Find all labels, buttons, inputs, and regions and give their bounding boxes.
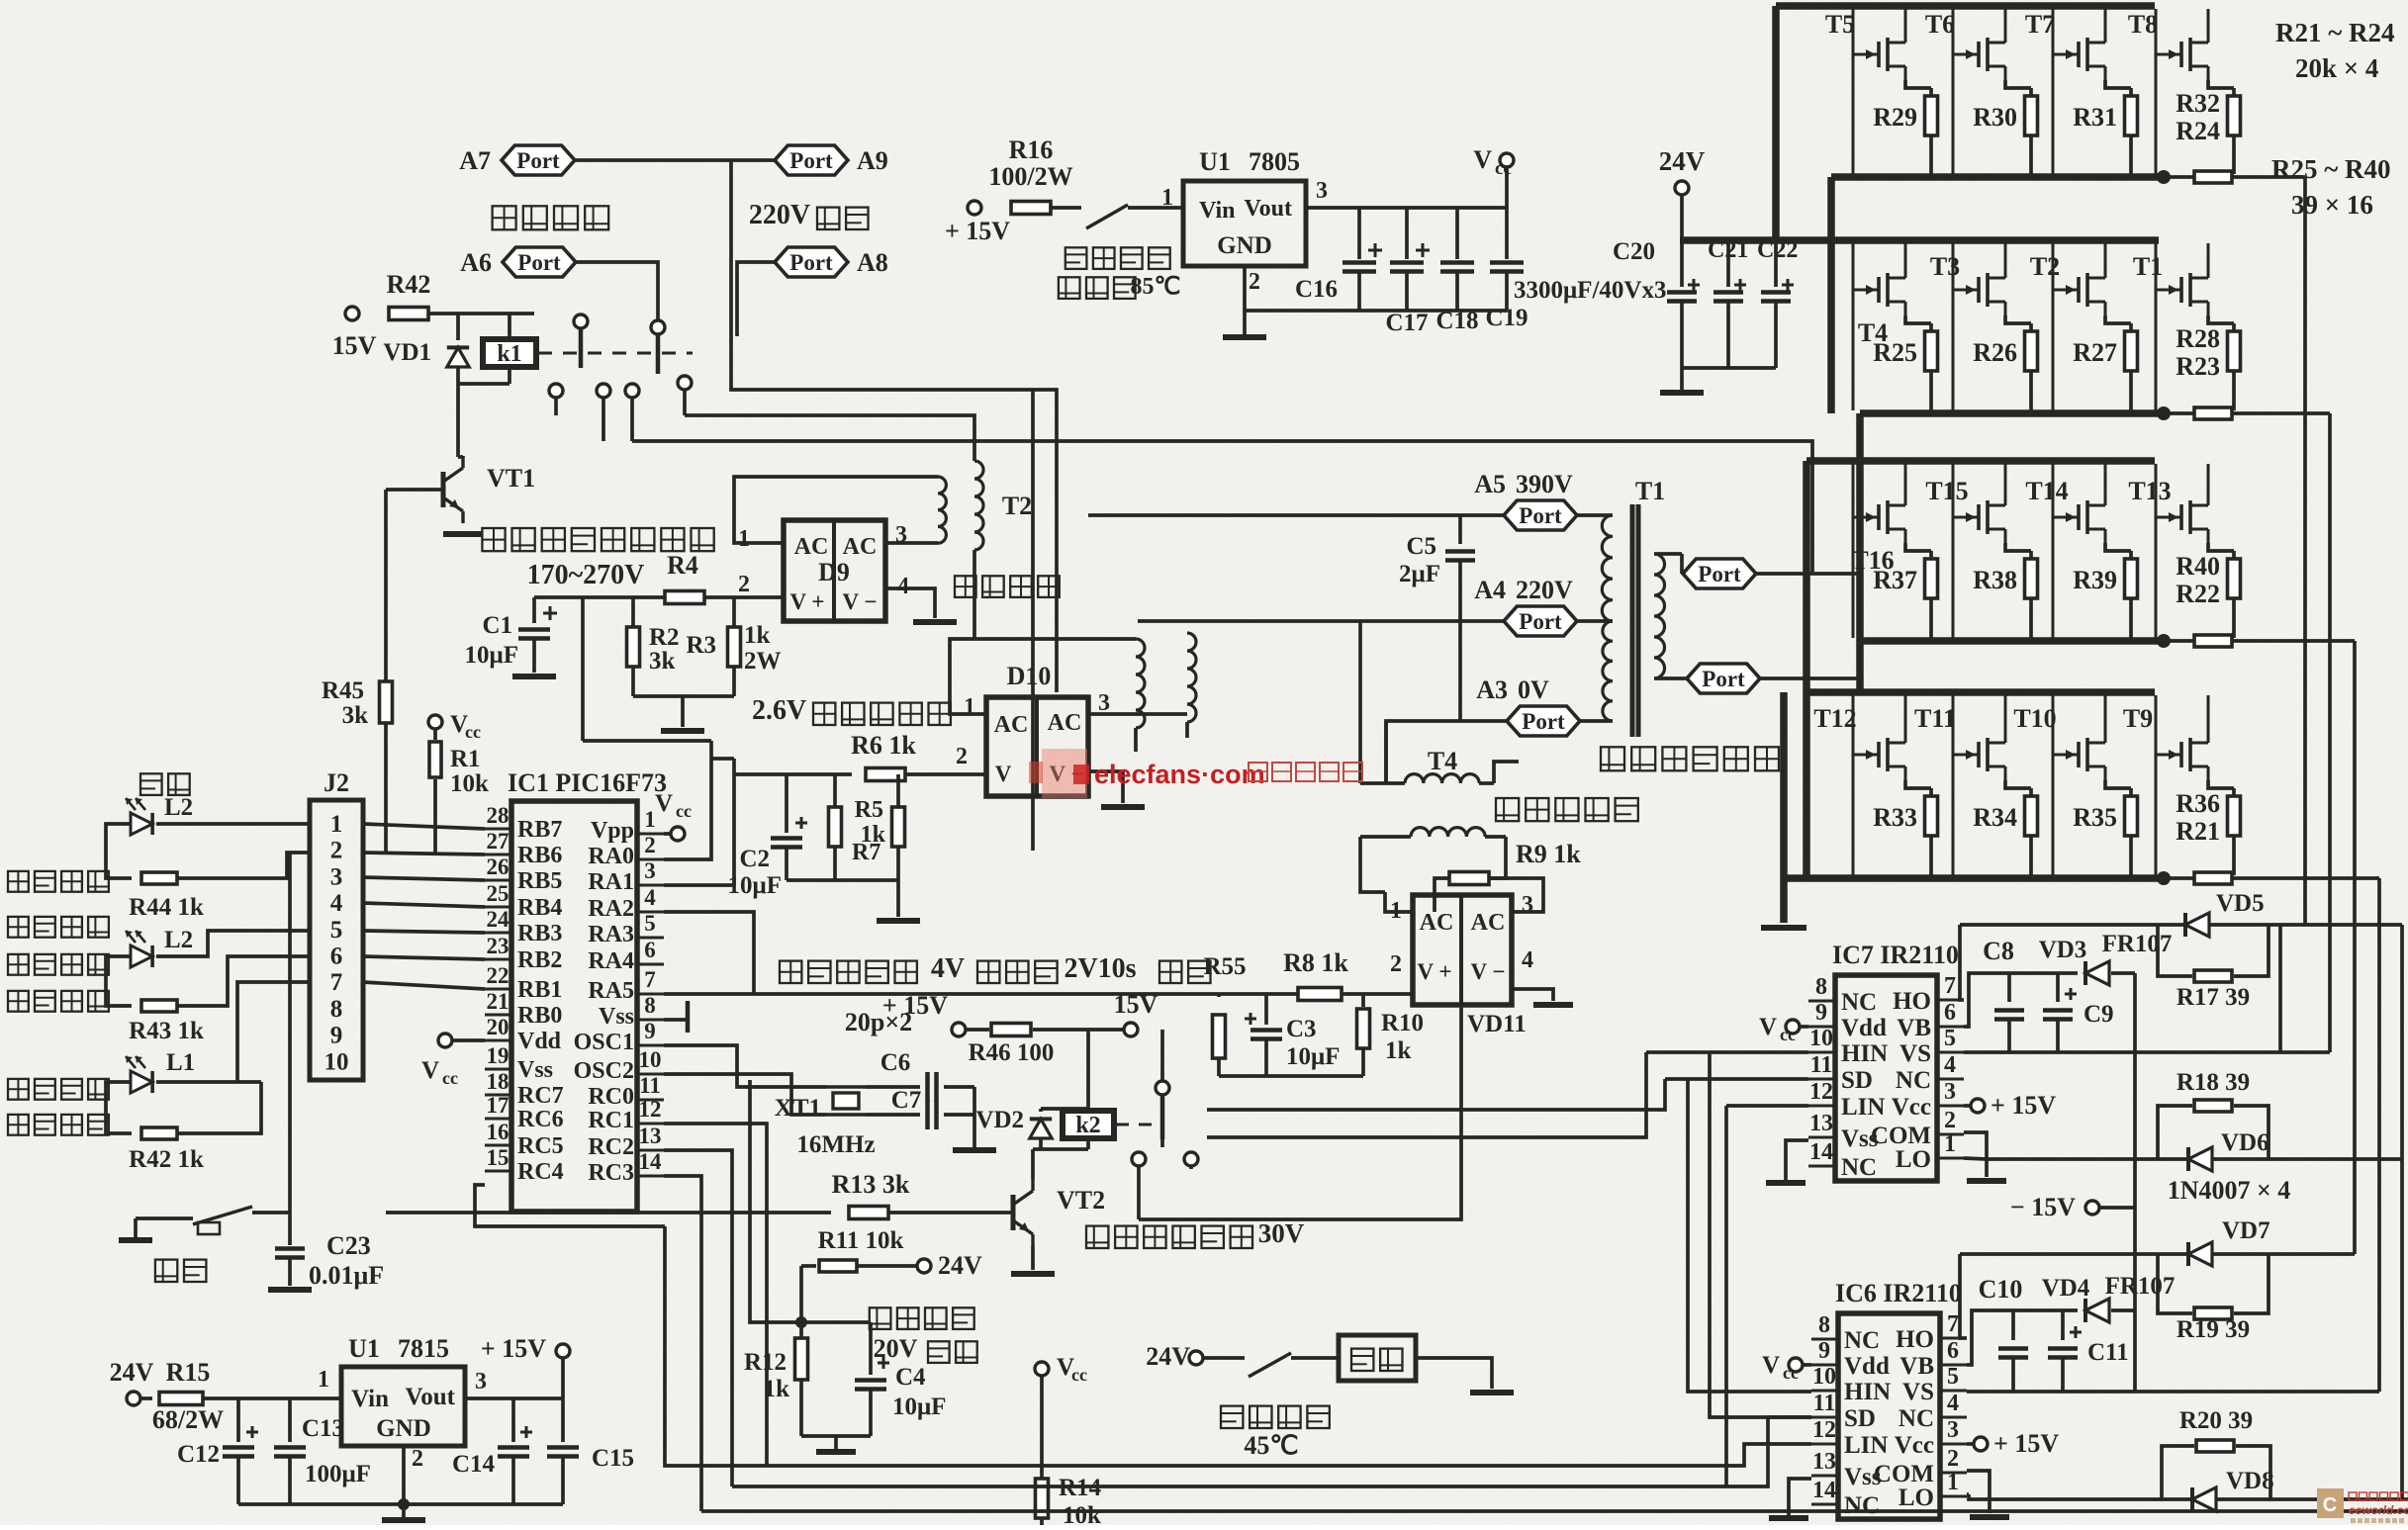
- svg-text:R36: R36: [2176, 789, 2220, 818]
- resistor R8: [1283, 948, 1348, 1001]
- svg-text:OSC1: OSC1: [574, 1030, 634, 1055]
- diode VD2: [975, 1107, 1052, 1149]
- VT1 collector wire: [458, 456, 463, 457]
- wire R42 right: [428, 312, 534, 315]
- svg-text:C8: C8: [1983, 937, 2014, 965]
- wire T4 left loop: [1358, 621, 1362, 783]
- LED L2 a: [126, 794, 193, 835]
- svg-text:2: 2: [1390, 951, 1402, 977]
- svg-text:A8: A8: [857, 248, 888, 277]
- svg-text:24V: 24V: [938, 1251, 982, 1280]
- svg-text:NC: NC: [1896, 1067, 1931, 1094]
- transformer T4 coil2: [1360, 828, 1506, 837]
- resistor R17: [2158, 925, 2269, 1011]
- svg-text:R55: R55: [1203, 953, 1246, 980]
- svg-text:R13 3k: R13 3k: [832, 1170, 910, 1199]
- IC6 Vcc terminal: [1762, 1352, 1811, 1383]
- svg-text:COM: COM: [1874, 1461, 1934, 1487]
- capacitor C21: [1708, 237, 1748, 368]
- svg-text:9: 9: [644, 1019, 656, 1043]
- svg-text:7: 7: [1944, 973, 1956, 999]
- wire right bundle v4: [2377, 878, 2381, 1392]
- label 过载保护点: [780, 953, 1211, 984]
- svg-text:18: 18: [487, 1069, 509, 1094]
- red overlay near D10: [1029, 749, 1087, 798]
- label 绿色充满: [8, 991, 109, 1012]
- svg-text:2: 2: [412, 1446, 423, 1472]
- thick bus row4 source: [1784, 874, 2163, 882]
- VD11 pin1 wire: [1385, 892, 1413, 912]
- ground matrix: [1761, 925, 1806, 931]
- capacitor C20: [1613, 238, 1700, 368]
- svg-text:C16: C16: [1295, 276, 1338, 303]
- svg-text:J2: J2: [324, 768, 349, 797]
- label 1N4007x4: [2168, 1176, 2291, 1205]
- svg-text:12: 12: [639, 1097, 662, 1122]
- svg-text:VD7: VD7: [2222, 1217, 2270, 1244]
- svg-text:C10: C10: [1979, 1275, 2023, 1304]
- svg-text:Port: Port: [1698, 562, 1741, 586]
- svg-text:SD: SD: [1844, 1405, 1876, 1432]
- MOSFET T8: [2128, 9, 2208, 174]
- svg-text:3: 3: [1316, 178, 1328, 204]
- IC U1 7815: [318, 1334, 487, 1472]
- IC VD11 bridge: [1390, 892, 1533, 1037]
- thick bus row1 top: [1776, 2, 2155, 10]
- resistor R33: [1873, 780, 1937, 875]
- resistor R42: [387, 270, 431, 320]
- svg-text:9: 9: [330, 1023, 343, 1049]
- svg-text:Vin: Vin: [1199, 198, 1235, 224]
- IC IC1 PIC16F73: [485, 768, 667, 1212]
- wire R43 to pin6: [177, 956, 310, 1006]
- svg-text:VD5: VD5: [2216, 890, 2265, 917]
- transformer T2 right winding: [974, 461, 983, 550]
- svg-text:100μF: 100μF: [305, 1461, 371, 1487]
- svg-text:RB4: RB4: [517, 895, 562, 921]
- OSC2 pin10 wire: [664, 1074, 826, 1115]
- C10 VD4 rail: [2013, 1308, 2135, 1312]
- wire LED3: [156, 1080, 261, 1084]
- svg-text:R43 1k: R43 1k: [129, 1018, 204, 1044]
- svg-text:R20 39: R20 39: [2179, 1407, 2253, 1434]
- svg-text:AC: AC: [1420, 910, 1454, 936]
- port T1 sec upper: [1682, 554, 1860, 588]
- svg-text:5: 5: [644, 911, 656, 936]
- IC IC7 IR2110: [1808, 941, 1964, 1181]
- svg-text:7815: 7815: [398, 1334, 449, 1363]
- svg-text:cc: cc: [676, 801, 692, 821]
- svg-text:0.01μF: 0.01μF: [309, 1261, 384, 1290]
- T1 secondary: [1654, 554, 1682, 678]
- svg-text:V: V: [421, 1057, 439, 1084]
- svg-text:cc: cc: [1495, 158, 1512, 179]
- k2 contact arm: [1156, 1081, 1169, 1147]
- svg-text:26: 26: [487, 855, 509, 879]
- svg-text:10μF: 10μF: [465, 642, 518, 669]
- svg-text:19: 19: [487, 1043, 509, 1068]
- svg-text:R38: R38: [1973, 566, 2017, 594]
- terminal Vcc R14: [1035, 1354, 1087, 1385]
- svg-text:20V: 20V: [874, 1334, 918, 1363]
- watermark elecfans logo: [1073, 760, 1265, 789]
- svg-text:21: 21: [487, 989, 509, 1014]
- svg-text:10: 10: [1812, 1364, 1836, 1390]
- MOSFET T16: [1851, 464, 1905, 638]
- wire R13 row: [386, 1211, 831, 1215]
- svg-text:LIN: LIN: [1844, 1432, 1888, 1459]
- svg-text:+ 15V: + 15V: [481, 1334, 546, 1363]
- svg-text:11: 11: [1813, 1391, 1836, 1416]
- svg-text:3: 3: [1522, 892, 1533, 918]
- R6 rail: [711, 759, 852, 885]
- svg-text:1N4007 × 4: 1N4007 × 4: [2168, 1176, 2291, 1205]
- svg-text:k1: k1: [497, 341, 521, 367]
- svg-text:NC: NC: [1844, 1492, 1880, 1519]
- svg-text:C: C: [2323, 1494, 2337, 1516]
- IC IC6 IR2110: [1811, 1279, 1967, 1519]
- svg-text:Port: Port: [1702, 667, 1745, 691]
- svg-text:22: 22: [487, 963, 509, 988]
- IC7 COM gnd: [1964, 1132, 2006, 1181]
- svg-text:Vin: Vin: [351, 1386, 389, 1412]
- svg-text:D9: D9: [818, 558, 850, 586]
- wire A3 left: [1386, 721, 1508, 783]
- svg-text:C6: C6: [880, 1049, 911, 1076]
- resistor R40: [2176, 543, 2240, 638]
- thick bus vert x1826: [1803, 461, 1810, 878]
- port A6: [460, 247, 576, 277]
- svg-text:390V: 390V: [1516, 470, 1573, 498]
- wire right bundle v3: [2353, 641, 2357, 1254]
- svg-text:3k: 3k: [342, 702, 369, 729]
- 7815 bottom rail: [238, 1504, 563, 1520]
- svg-text:RC7: RC7: [517, 1083, 564, 1109]
- wire right bundle v2: [2328, 413, 2332, 1052]
- capacitor C11: [2048, 1310, 2129, 1392]
- svg-text:4: 4: [330, 890, 343, 917]
- svg-text:eeworld.com.cn: eeworld.com.cn: [2349, 1503, 2408, 1517]
- svg-text:8: 8: [330, 996, 343, 1023]
- wire harness h3: [1726, 1104, 1808, 1108]
- svg-text:T14: T14: [2025, 477, 2068, 505]
- terminal Vcc R1: [428, 711, 481, 742]
- svg-text:cc: cc: [1783, 1363, 1799, 1383]
- svg-text:V: V: [1759, 1014, 1777, 1040]
- resistor R27: [2073, 315, 2137, 410]
- VD11 pin3 loop R9: [1489, 878, 1543, 912]
- wire bus y420: [685, 415, 974, 461]
- svg-text:10: 10: [1809, 1026, 1833, 1051]
- resistor R29: [1873, 80, 1937, 174]
- relay contact lower 3: [625, 384, 639, 441]
- capacitor C2: [728, 774, 807, 899]
- svg-text:FR107: FR107: [2105, 1273, 2176, 1300]
- thick bus vert x1851: [1827, 177, 1835, 413]
- svg-text:HO: HO: [1896, 1326, 1934, 1353]
- svg-text:T7: T7: [2025, 10, 2055, 39]
- wire bus y446: [632, 441, 1812, 574]
- svg-text:Vcc: Vcc: [1892, 1094, 1931, 1121]
- svg-text:C3: C3: [1286, 1016, 1317, 1042]
- svg-text:4V: 4V: [931, 953, 965, 984]
- svg-text:R32: R32: [2176, 89, 2220, 118]
- capacitor C23: [268, 1231, 384, 1290]
- diode VD3: [2039, 931, 2173, 985]
- svg-text:2: 2: [1249, 269, 1260, 295]
- resistor R15: [140, 1358, 341, 1434]
- resistor R45: [322, 677, 393, 853]
- label R25-R40: [2271, 154, 2391, 220]
- IC7 LO wire: [1964, 1158, 1987, 1159]
- wire A5 rail: [1088, 513, 1505, 517]
- svg-text:8: 8: [644, 993, 656, 1018]
- wire VD3 to vert: [2133, 973, 2137, 1392]
- IC7 HO wire: [1960, 925, 1964, 1000]
- svg-text:9: 9: [1815, 1000, 1827, 1026]
- wire bus y394: [731, 386, 1057, 692]
- terminal 24V fan: [1146, 1342, 1203, 1371]
- terminal Vdd pin20: [421, 1034, 485, 1088]
- svg-text:1: 1: [1947, 1470, 1959, 1495]
- capacitor C10: [1979, 1275, 2028, 1392]
- junction dot row4: [2157, 871, 2171, 885]
- wire J2 pin rows to IC: [363, 824, 485, 989]
- wire R46 junction down: [1086, 1030, 1090, 1109]
- wire R11 junction left: [750, 1080, 801, 1322]
- svg-text:3: 3: [330, 863, 343, 890]
- svg-text:4: 4: [1947, 1391, 1959, 1416]
- IC7 VS rail: [1964, 1050, 2330, 1054]
- svg-text:C12: C12: [177, 1441, 220, 1468]
- svg-text:A5: A5: [1474, 470, 1506, 498]
- wire R44 to pin2: [177, 853, 310, 878]
- thick bus row1 source: [1831, 173, 2163, 181]
- svg-text:R25: R25: [1873, 338, 1917, 367]
- svg-text:T1: T1: [1635, 477, 1665, 505]
- svg-text:U1: U1: [348, 1334, 380, 1363]
- svg-text:1: 1: [330, 811, 343, 838]
- resistor R12: [744, 1322, 808, 1436]
- svg-text:10k: 10k: [1063, 1502, 1101, 1525]
- svg-text:k2: k2: [1075, 1113, 1100, 1138]
- svg-text:10μF: 10μF: [1286, 1043, 1340, 1070]
- label 170~270V: [527, 560, 645, 590]
- svg-text:GND: GND: [1217, 232, 1272, 259]
- svg-text:IC1 PIC16F73: IC1 PIC16F73: [508, 768, 667, 797]
- svg-text:RA2: RA2: [588, 896, 634, 922]
- capacitor C22: [1757, 237, 1798, 368]
- svg-text:Vout: Vout: [1245, 196, 1292, 222]
- label 市电过欠压转逆变: [482, 528, 713, 551]
- svg-text:4: 4: [897, 574, 909, 599]
- resistor row1 source 39: [2163, 171, 2305, 183]
- svg-text:C14: C14: [452, 1451, 496, 1478]
- port A9: [775, 145, 888, 175]
- MOSFET T11: [1914, 695, 2005, 875]
- svg-text:8: 8: [1818, 1312, 1830, 1338]
- svg-text:220V: 220V: [749, 200, 810, 230]
- svg-text:15: 15: [487, 1145, 509, 1170]
- diode VD4: [2042, 1273, 2176, 1322]
- port A8: [775, 247, 888, 277]
- resistor R26: [1973, 315, 2037, 410]
- svg-text:220V: 220V: [1516, 576, 1573, 604]
- svg-text:2: 2: [1947, 1446, 1959, 1472]
- resistor row2 source 39: [2163, 407, 2330, 419]
- resistor R9: [1435, 840, 1581, 912]
- capacitor C8: [1983, 937, 2024, 1052]
- T1 primary upper: [1576, 515, 1613, 621]
- fan switch: [1203, 1353, 1339, 1377]
- resistor R11: [801, 1227, 917, 1272]
- svg-text:8: 8: [1815, 974, 1827, 1000]
- svg-text:HIN: HIN: [1844, 1379, 1891, 1405]
- svg-text:RC2: RC2: [588, 1134, 634, 1160]
- svg-text:RA1: RA1: [588, 869, 634, 895]
- svg-text:R8 1k: R8 1k: [1283, 948, 1348, 977]
- VT2 collector up: [1031, 1149, 1035, 1179]
- svg-text:2: 2: [644, 833, 656, 857]
- svg-text:A9: A9: [857, 146, 888, 175]
- VD11 pin4 gnd: [1512, 989, 1573, 1005]
- IC D10 bridge: [956, 662, 1110, 796]
- port A4 220V: [1474, 576, 1577, 636]
- svg-text:2: 2: [738, 572, 750, 597]
- VT1 emitter ground: [443, 531, 483, 537]
- svg-text:VT1: VT1: [487, 464, 535, 493]
- svg-text:C1: C1: [482, 612, 512, 639]
- svg-text:T9: T9: [2123, 704, 2153, 733]
- label 主变压器外接: [1601, 747, 1779, 770]
- RC2 pin13 wire: [664, 1150, 732, 1486]
- thick bus 24V rail: [1680, 236, 2159, 244]
- port T1 sec lower: [1682, 664, 1860, 693]
- svg-text:3: 3: [1098, 690, 1110, 716]
- k2 contact lower a: [1132, 1152, 1146, 1219]
- label 灯板: [140, 773, 190, 795]
- thermal switch: [1051, 205, 1183, 228]
- MOSFET T5: [1825, 9, 1905, 174]
- svg-text:T1: T1: [2133, 252, 2163, 281]
- bus bottom 1: [665, 1226, 1811, 1466]
- C2 R7 R5 bottom rail: [787, 880, 920, 921]
- watermark eeworld corner: [2317, 1488, 2408, 1523]
- label 红色充电: [8, 954, 109, 975]
- RA0 pin2 wire: [664, 741, 711, 859]
- svg-text:7: 7: [1947, 1311, 1959, 1337]
- svg-text:L2: L2: [164, 927, 193, 953]
- diode VD6: [1987, 1129, 2402, 1171]
- MOSFET T4: [1853, 243, 1905, 410]
- resistor R14: [1036, 1376, 1102, 1529]
- svg-text:C2: C2: [739, 846, 770, 872]
- svg-text:23: 23: [487, 934, 509, 958]
- resistor R30: [1973, 80, 2037, 174]
- svg-text:A4: A4: [1474, 576, 1506, 604]
- thick bus row3 source: [1860, 637, 2163, 645]
- svg-text:15V: 15V: [332, 331, 377, 360]
- svg-text:A6: A6: [460, 248, 492, 277]
- MOSFET T7: [2025, 9, 2105, 174]
- svg-text:RA3: RA3: [588, 922, 634, 947]
- wire harness lin7: [1207, 1052, 1646, 1137]
- relay coil k2: [1063, 1109, 1114, 1149]
- svg-text:13: 13: [639, 1124, 662, 1148]
- svg-text:R18 39: R18 39: [2176, 1069, 2250, 1096]
- T1 primary bottom wire: [1579, 719, 1613, 723]
- VD11 pin2 wire: [1411, 992, 1415, 996]
- resistor R43: [129, 1000, 204, 1044]
- svg-text:14: 14: [1809, 1139, 1833, 1165]
- capacitor C7: [866, 1087, 996, 1150]
- OSC1 pin9 wire: [664, 1045, 826, 1087]
- svg-text:VT2: VT2: [1057, 1186, 1105, 1215]
- svg-text:2: 2: [1944, 1108, 1956, 1133]
- svg-text:24V: 24V: [1146, 1342, 1190, 1371]
- IC6 +15V pin3: [1967, 1429, 2059, 1458]
- thick bus left vert1: [1772, 6, 1780, 240]
- wire VD1-k1 bottom: [458, 382, 509, 386]
- connector J2: [310, 768, 363, 1080]
- MOSFET T10: [2013, 695, 2105, 875]
- svg-text:R9 1k: R9 1k: [1516, 840, 1581, 868]
- label 热保护温控开关: [1059, 247, 1181, 300]
- svg-text:AC: AC: [794, 534, 829, 560]
- wire harness v2: [1688, 1079, 1811, 1392]
- dashed relay link: [538, 352, 693, 355]
- svg-text:T6: T6: [1925, 10, 1955, 39]
- wire LED1: [156, 822, 310, 826]
- resistor R5: [855, 774, 905, 880]
- svg-text:12: 12: [1812, 1417, 1836, 1443]
- svg-text:R16: R16: [1009, 135, 1054, 164]
- svg-text:T2: T2: [1002, 492, 1032, 520]
- svg-text:C5: C5: [1406, 533, 1436, 560]
- svg-text:cc: cc: [465, 722, 481, 742]
- svg-text:16MHz: 16MHz: [796, 1131, 875, 1158]
- svg-text:15V: 15V: [1114, 990, 1158, 1019]
- IC7 +15V pin3: [1964, 1091, 2056, 1120]
- svg-text:cc: cc: [1780, 1025, 1796, 1044]
- svg-text:cc: cc: [442, 1068, 458, 1088]
- wire A3 to T4: [1384, 721, 1388, 783]
- capacitor C5: [1399, 515, 1475, 721]
- svg-text:− 15V: − 15V: [2010, 1193, 2076, 1221]
- svg-text:R3: R3: [686, 632, 716, 659]
- svg-text:IC7 IR2110: IC7 IR2110: [1832, 941, 1959, 969]
- diode VD5: [1960, 890, 2305, 937]
- resistor R18: [2158, 1069, 2269, 1159]
- svg-text:R44 1k: R44 1k: [129, 894, 204, 921]
- wire harness h2: [1688, 1077, 1808, 1081]
- terminal 15V: [332, 307, 377, 360]
- port A5 390V: [1474, 470, 1577, 530]
- svg-text:Port: Port: [1519, 609, 1562, 634]
- svg-text:45℃: 45℃: [1244, 1431, 1298, 1460]
- C8 VD3 rail: [2009, 971, 2135, 975]
- wire harness v3: [1724, 1106, 1728, 1486]
- svg-text:16: 16: [487, 1120, 509, 1144]
- svg-text:R15: R15: [166, 1358, 211, 1387]
- svg-text:V: V: [995, 762, 1012, 786]
- capacitor C4: [855, 1322, 946, 1436]
- wire rail y749: [583, 739, 711, 743]
- T4 sec loop: [1360, 837, 1506, 892]
- diode VD1: [383, 314, 469, 384]
- svg-text:VD11: VD11: [1467, 1011, 1527, 1037]
- wire T2 right down: [972, 550, 976, 639]
